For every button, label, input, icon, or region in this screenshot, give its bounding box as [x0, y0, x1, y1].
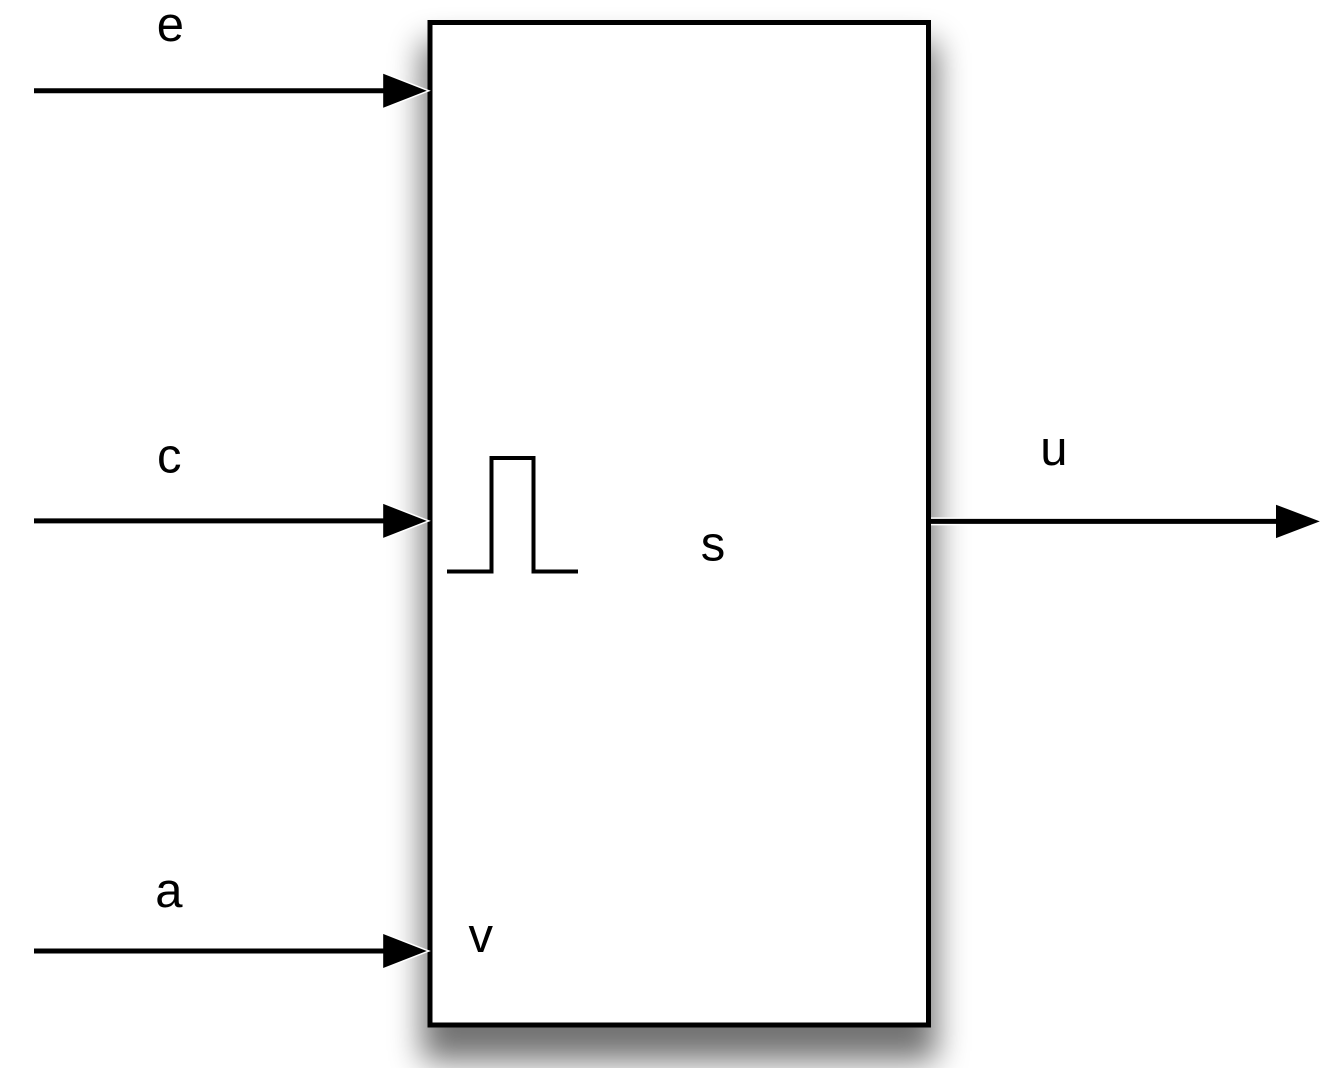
svg-text:s: s	[701, 518, 726, 572]
arrowhead u output	[1276, 505, 1320, 538]
svg-text:c: c	[157, 429, 182, 483]
wire a	[34, 949, 396, 954]
arrowhead a	[383, 934, 427, 968]
wire u output halo	[1276, 505, 1320, 538]
wire c halo	[383, 504, 427, 538]
wire e halo	[383, 74, 427, 108]
svg-text:e: e	[157, 0, 184, 52]
pulse clock symbol	[447, 458, 578, 572]
block S body	[430, 23, 929, 1026]
wire u output	[929, 519, 1288, 524]
svg-text:a: a	[155, 864, 183, 918]
arrowhead e	[383, 74, 427, 108]
svg-text:v: v	[469, 909, 494, 963]
svg-text:u: u	[1040, 422, 1067, 476]
arrowhead c	[383, 504, 427, 538]
wire c	[34, 518, 396, 523]
wire a halo	[383, 934, 427, 968]
block S shadow	[422, 43, 937, 1062]
wire u output under-halo	[931, 517, 1288, 525]
wire e	[34, 88, 396, 93]
